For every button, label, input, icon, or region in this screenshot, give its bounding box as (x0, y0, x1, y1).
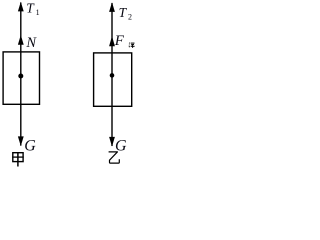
label T1 (26, 0, 39, 17)
wire: right vertical force line (111, 3, 113, 146)
subscript 浮 (tiny drawn strokes) (129, 43, 135, 48)
svg-text:F: F (114, 33, 125, 49)
arrowhead: weight G left (down) (18, 136, 24, 146)
block 甲 outline (3, 52, 39, 104)
block 乙 outline (94, 53, 132, 106)
svg-text:T: T (119, 5, 128, 20)
svg-text:G: G (24, 138, 36, 155)
arrowhead: tension T1 (up) (18, 2, 24, 12)
center-of-mass dot (right block) (110, 73, 115, 78)
character 乙 (drawn strokes) (109, 152, 120, 163)
arrowhead: weight G right (down) (109, 137, 115, 147)
svg-text:2: 2 (128, 12, 132, 21)
arrowhead: tension T2 (up) (109, 2, 115, 12)
center-of-mass dot (left block) (18, 74, 23, 79)
label T2 (119, 5, 132, 21)
arrowhead: buoyant force F (up) (109, 36, 115, 46)
svg-text:1: 1 (36, 8, 40, 17)
svg-text:N: N (25, 35, 37, 51)
svg-text:T: T (26, 0, 35, 15)
wire: left vertical force line (20, 3, 22, 146)
arrowhead: normal force N (up) (18, 35, 24, 45)
character 甲 (drawn strokes) (12, 153, 24, 167)
